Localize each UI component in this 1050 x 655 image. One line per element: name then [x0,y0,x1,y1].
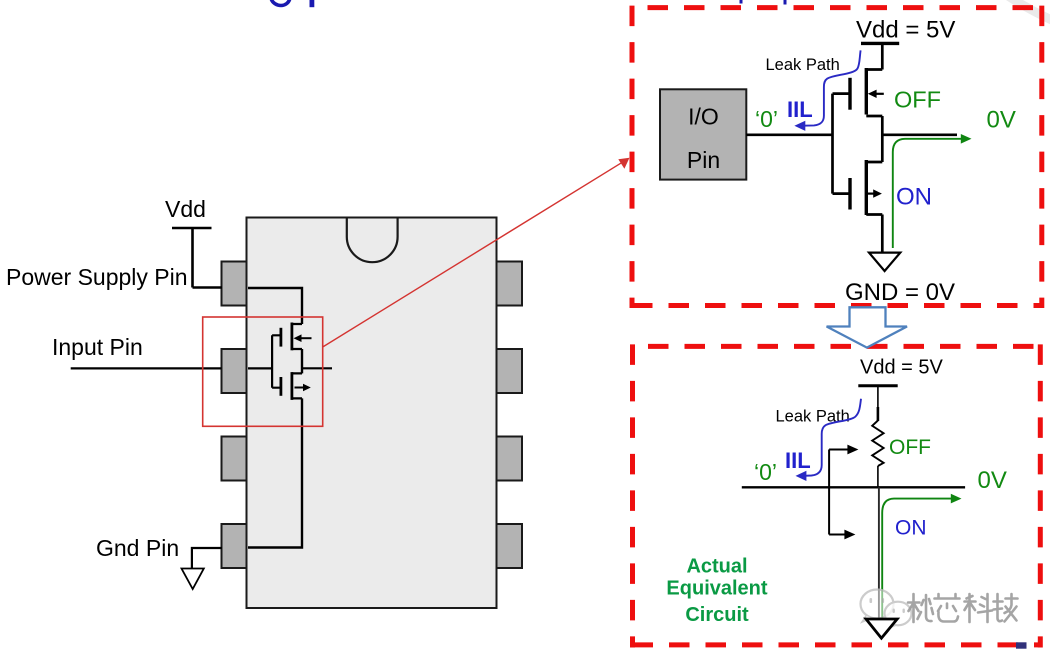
svg-text:Equivalent: Equivalent [666,578,767,600]
IC pin 2 left [222,349,248,393]
IC pin 4 left [222,524,248,568]
title descender mark 1 [740,0,743,4]
svg-text:ON: ON [896,184,932,211]
red dashed box top panel: top edge [648,5,1045,10]
svg-text:Gnd Pin: Gnd Pin [96,535,179,561]
title descender p (cut off) [310,0,315,7]
svg-text:Input Pin: Input Pin [52,334,143,360]
wire Gnd Pin to pin 4 [192,548,222,569]
wire PMOS drain to output node [881,116,884,162]
wire inverter output stub (inside IC) [302,367,332,369]
IC pin 5 right [497,262,523,306]
title descender g (cut off) [271,0,290,6]
gate line shared (top panel) [833,94,851,194]
transistor M2 NMOS arrow (points right) [867,193,876,195]
wire NMOS source to pin 4 (inside IC) [248,398,302,547]
green current arrowhead (bottom panel) [951,494,962,504]
transistor Q1 PMOS leads [292,324,302,349]
ground symbol (left) [182,569,204,590]
red dashed box top panel: bottom edge [632,303,1044,308]
wire NMOS source to ground [881,215,884,253]
I/O Pin block [660,89,746,179]
ground symbol (bottom panel) [866,619,897,638]
svg-text:IIL: IIL [787,97,813,122]
transistor M2 NMOS leads [866,162,882,215]
IC pin 7 right [497,437,523,481]
svg-text:0V: 0V [978,467,1007,494]
bracket arrowhead top (points right) [847,445,858,455]
gate line shared (inside IC) [272,335,281,387]
title descender mark 2 [784,0,787,5]
red dashed box top panel: left edge [630,6,635,308]
IC pin 6 right [497,349,523,393]
red dashed box bottom panel: top edge [648,344,1043,349]
svg-text:Circuit: Circuit [685,604,749,626]
transistor M1 PMOS arrow (points left) [874,93,884,95]
svg-text:Leak Path: Leak Path [766,56,840,74]
transistor M2 NMOS channel bar [865,160,868,215]
leak path blue arrowhead (bottom panel) [796,471,807,481]
IC pin 3 left [222,437,248,481]
red dashed box bottom panel: bottom edge [633,642,1043,647]
wire Vdd bar to resistor [877,386,879,407]
transistor Q2 NMOS arrow (points right) [295,387,306,389]
svg-text:Vdd = 5V: Vdd = 5V [860,357,944,379]
transistor M1 PMOS gate bar [848,78,851,110]
svg-text:‘0’: ‘0’ [754,459,777,485]
wire input to pin 2 [71,367,222,369]
Vdd rail bar (bottom panel) [858,384,897,387]
leak path blue arrowhead (top panel) [794,121,805,131]
transistor Q2 NMOS (inside IC) gate bar [279,377,282,396]
svg-text:IIL: IIL [785,448,811,473]
transistor Q1 PMOS (inside IC) gate bar [279,328,282,347]
svg-text:I/O: I/O [688,104,719,130]
Vdd supply symbol T-bar [172,228,212,288]
navy artifact bottom right [1016,642,1027,648]
big blue down arrow between panels [827,307,907,347]
resistor R-leak (OFF PMOS) zigzag [872,421,883,467]
svg-text:Vdd = 5V: Vdd = 5V [856,17,955,44]
transistor Q1 PMOS channel bar [290,323,293,351]
watermark logo bubbles [861,590,912,630]
wire Vdd to pin 1 [193,286,223,288]
wire Vdd bar to PMOS [881,43,884,69]
red callout line to top panel [323,160,626,347]
green current arrowhead (top panel) [961,134,972,144]
green current path (bottom panel) [882,499,952,620]
transistor M1 PMOS leads [866,70,882,117]
red callout arrowhead [618,158,629,169]
svg-text:0V: 0V [987,106,1016,133]
wire pin 2 to gate (inside IC) [248,367,272,369]
IC body U1 DIP-8 [247,218,497,609]
red highlight box around inverter [203,317,323,426]
wire pin 1 to rail (inside IC) [248,288,302,324]
Vdd rail bar (top panel) [861,42,899,45]
wire I/O Pin to gate [746,133,832,136]
svg-text:‘0’: ‘0’ [755,106,778,132]
svg-text:Pin: Pin [687,147,720,173]
bracket arrowhead bottom (points right) [844,530,855,540]
IC notch [347,219,398,263]
svg-text:Actual: Actual [686,556,747,578]
svg-text:ON: ON [895,517,927,540]
watermark swoosh top-right corner [1005,0,1050,22]
main horizontal wire (bottom panel) [742,486,965,488]
svg-text:OFF: OFF [894,87,941,113]
red dashed box top panel: right edge [1039,6,1044,308]
svg-text:Vdd: Vdd [165,196,206,222]
wire resistor to output node [877,466,879,487]
watermark text taoxin keji (stylized) [908,594,1018,622]
svg-text:Power Supply Pin: Power Supply Pin [6,264,188,290]
red dashed box bottom panel: left edge [630,344,635,647]
svg-text:GND = 0V: GND = 0V [845,279,955,306]
wire rail PMOS-NMOS (inside IC) [301,349,303,373]
leak path blue curve (bottom panel) [804,399,861,476]
bracket with arrows (bottom panel) [829,450,849,535]
transistor Q1 PMOS arrow (points left) [299,337,312,339]
svg-text:Leak Path: Leak Path [776,408,850,426]
transistor Q2 NMOS leads [292,373,302,398]
green current path (top panel) [893,139,963,248]
transistor M1 PMOS channel bar [865,68,868,115]
wire output (top panel) [882,133,957,136]
leak path blue curve (top panel) [803,50,861,125]
wire output node to ground (bottom panel) [878,487,880,619]
ground symbol (top panel) [869,253,900,271]
transistor Q2 NMOS channel bar [290,372,293,400]
transistor M2 NMOS gate bar [848,178,851,210]
svg-text:OFF: OFF [889,436,931,459]
IC pin 1 left [222,262,248,306]
IC pin 8 right [497,524,523,568]
red dashed box bottom panel: right edge [1038,344,1043,647]
